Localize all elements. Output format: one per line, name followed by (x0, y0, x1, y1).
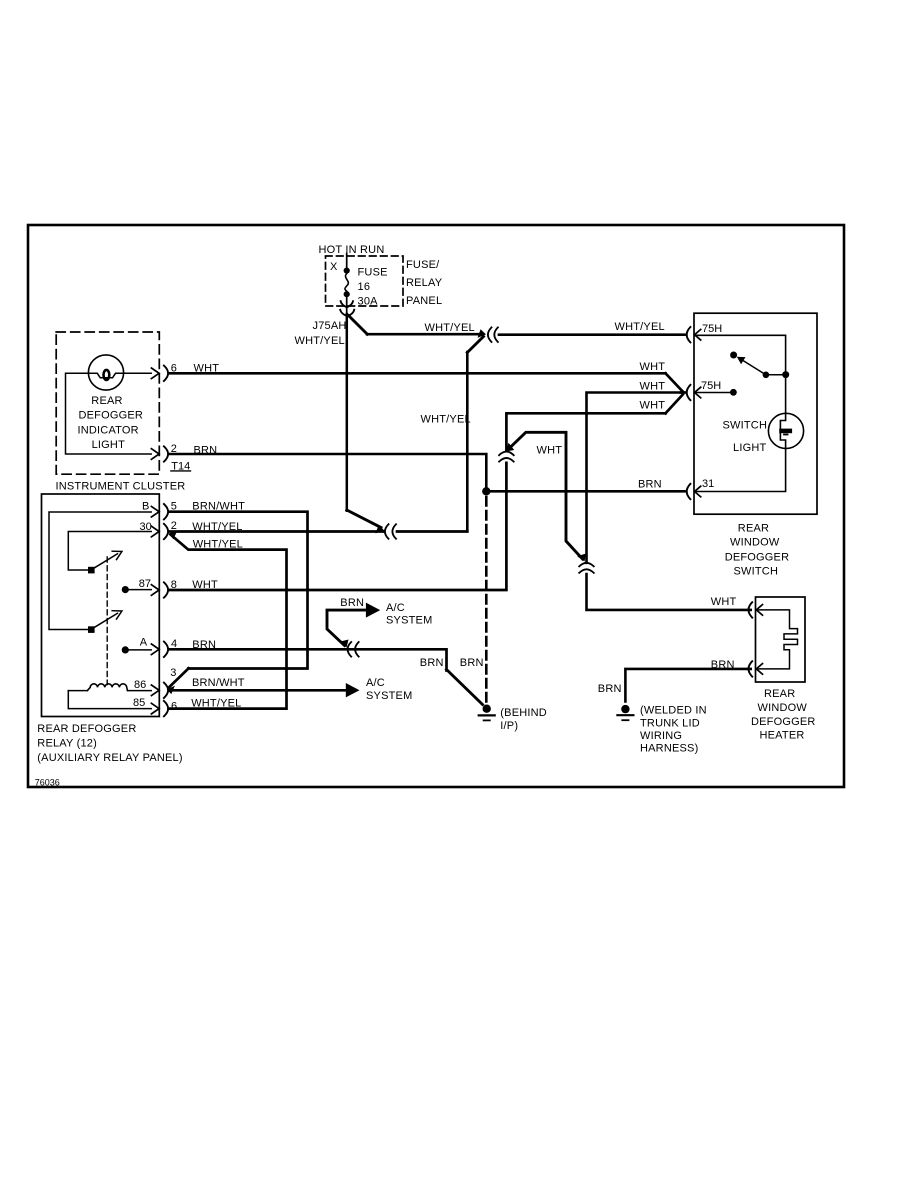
svg-text:BRN: BRN (192, 639, 216, 651)
indicator lamp circle (88, 355, 123, 390)
arrow below fuse box (junction J75AH) (340, 310, 354, 316)
wire from HOT IN RUN into fuse (346, 254, 348, 268)
wire WHT middle (switch to heater drop) (587, 393, 682, 563)
svg-text:RELAY: RELAY (406, 277, 443, 289)
svg-text:WIRING: WIRING (640, 730, 682, 742)
svg-text:87: 87 (139, 578, 151, 590)
lower contact square (88, 626, 95, 633)
pin 5 connector arc (164, 504, 168, 519)
upper contact square (88, 567, 95, 574)
A/C arrow (upper BRN) (366, 603, 380, 618)
cluster wire lamp left leg to pin 2 (66, 373, 152, 454)
switch internal wire lamp to pin 31 (695, 449, 786, 492)
svg-text:A/C: A/C (366, 677, 385, 689)
inline connector on WHT/YEL (two arcs) (488, 327, 498, 342)
wire BRN diagonal to ground (behind I/P) (447, 670, 483, 705)
svg-text:INDICATOR: INDICATOR (78, 424, 139, 436)
wire BRN cluster pin2 to junction (169, 454, 487, 488)
pin 85 connector arc (164, 701, 168, 716)
pin 6 arrow (in box) (151, 368, 159, 379)
svg-text:BRN: BRN (638, 479, 662, 491)
svg-text:INSTRUMENT CLUSTER: INSTRUMENT CLUSTER (56, 481, 186, 493)
wire WHT relay pin8 (169, 463, 507, 590)
switch pin 31 connector arc (687, 484, 691, 499)
switch arm (741, 359, 766, 375)
relay internal wire pin B to lower contact (49, 512, 151, 630)
lamp filament (104, 370, 110, 380)
svg-text:TRUNK LID: TRUNK LID (640, 717, 700, 729)
instrument cluster dashed box (56, 332, 159, 474)
svg-text:REAR: REAR (738, 523, 769, 535)
svg-text:REAR: REAR (764, 688, 795, 700)
wire WHT/YEL connector to vertical x467 (397, 530, 467, 533)
switch lamp cup jog (780, 413, 785, 448)
heater pin BRN connector arc (749, 661, 753, 676)
wire BRN/WHT pin86 to A/C system (169, 689, 345, 692)
frame border (28, 225, 844, 787)
arrow at fuse box bottom (341, 301, 353, 307)
switch pivot dot left (763, 372, 770, 379)
pin 2 connector arc (164, 524, 168, 539)
relay coil left leg to pin 85 (68, 691, 151, 709)
svg-text:I/P): I/P) (500, 720, 518, 732)
wire BRN relay pin4 (169, 649, 447, 670)
pin 6 connector arc (164, 366, 168, 381)
ground symbol (behind I/P) (483, 705, 491, 713)
svg-text:(WELDED IN: (WELDED IN (640, 705, 707, 717)
svg-text:WINDOW: WINDOW (730, 537, 780, 549)
contact dot pin 87 (122, 586, 129, 593)
inline connector on WHT vertical (579, 563, 594, 573)
svg-text:75H: 75H (701, 380, 721, 392)
svg-text:(AUXILIARY RELAY PANEL): (AUXILIARY RELAY PANEL) (37, 752, 182, 764)
svg-text:2: 2 (171, 443, 177, 455)
svg-text:4: 4 (171, 638, 177, 650)
svg-text:5: 5 (171, 501, 177, 513)
svg-text:HARNESS): HARNESS) (640, 743, 698, 755)
inline connector on WHT/YEL pin2 wire (385, 524, 396, 539)
rear window defogger switch box (694, 313, 817, 514)
svg-text:16: 16 (358, 281, 371, 293)
wire BRN/WHT pin5 right then down (169, 512, 308, 669)
wire WHT/YEL second branch from pin2 (169, 535, 287, 709)
svg-text:HOT IN RUN: HOT IN RUN (319, 244, 385, 256)
wire to pin 75H mid (681, 391, 685, 394)
cluster wire lamp to pin 6 (123, 372, 151, 374)
fuse output wire (346, 297, 348, 314)
svg-text:WINDOW: WINDOW (758, 702, 808, 714)
svg-text:6: 6 (171, 362, 177, 374)
svg-text:SYSTEM: SYSTEM (366, 690, 412, 702)
branch arrowhead into BRN connector (340, 640, 349, 648)
wire diagonal J75AH to connector (347, 510, 381, 528)
svg-text:WHT: WHT (194, 362, 220, 374)
switch pin 75H mid connector arc (687, 385, 691, 400)
svg-text:A/C: A/C (386, 602, 405, 614)
wire diagonal fuse to WHT/YEL horizontal (349, 316, 368, 335)
svg-text:30A: 30A (358, 296, 379, 308)
arrowhead into WHT vertical connector (lower) (577, 554, 586, 562)
svg-text:REAR DEFOGGER: REAR DEFOGGER (37, 723, 136, 735)
svg-text:WHT/YEL: WHT/YEL (425, 322, 475, 334)
svg-text:WHT: WHT (640, 380, 666, 392)
rear window defogger heater box (756, 597, 806, 682)
heater pin WHT connector arc (749, 602, 753, 617)
svg-text:75H: 75H (702, 323, 722, 335)
svg-text:WHT: WHT (192, 579, 218, 591)
junction dot node BRN (482, 487, 490, 495)
pin 8 arrow (151, 585, 159, 596)
T14 underline (171, 470, 191, 472)
switch pin 75H top connector arc (687, 327, 691, 342)
fuse F16 terminal dot bottom (344, 291, 350, 297)
ground symbol (welded in trunk lid) (621, 705, 629, 713)
relay coil (68, 690, 151, 692)
svg-text:WHT: WHT (640, 361, 666, 373)
svg-text:DEFOGGER: DEFOGGER (725, 551, 790, 563)
heater element (757, 610, 798, 669)
svg-text:T14: T14 (171, 460, 190, 472)
wire BRN junction to switch pin 31 (490, 490, 684, 493)
svg-text:WHT/YEL: WHT/YEL (421, 414, 471, 426)
pin 2 connector arc (164, 446, 168, 461)
relay actuator dashed line (106, 557, 108, 685)
svg-text:WHT/YEL: WHT/YEL (193, 539, 243, 551)
svg-text:WHT: WHT (711, 596, 737, 608)
svg-text:BRN: BRN (420, 657, 444, 669)
pin 86 connector arc (164, 683, 168, 698)
wire WHT/YEL vertical x467 (466, 352, 469, 531)
branch arrowhead into pin86 connector (167, 686, 175, 695)
wire J75AH WHT/YEL vertical (346, 314, 349, 511)
svg-text:31: 31 (702, 478, 714, 490)
svg-text:PANEL: PANEL (406, 295, 442, 307)
contact dot pin A (122, 646, 129, 653)
svg-text:RELAY (12): RELAY (12) (37, 737, 97, 749)
svg-text:DEFOGGER: DEFOGGER (79, 410, 144, 422)
svg-text:(BEHIND: (BEHIND (500, 707, 547, 719)
lower switch arm (95, 613, 118, 627)
svg-text:85: 85 (133, 697, 145, 709)
svg-text:DEFOGGER: DEFOGGER (751, 716, 816, 728)
fuse F16 element (S-curve) (345, 274, 348, 292)
pin 5 arrow (151, 506, 159, 517)
arrowhead into WHT connector (upper) (506, 443, 514, 452)
wire WHT/YEL connector to switch pin 75H (499, 333, 685, 336)
svg-text:BRN: BRN (598, 683, 622, 695)
switch lamp filament (782, 429, 790, 434)
svg-text:FUSE: FUSE (358, 266, 388, 278)
branch arrowhead into connector (from fuse side) (478, 329, 487, 338)
svg-text:HEATER: HEATER (760, 730, 805, 742)
svg-text:BRN/WHT: BRN/WHT (192, 500, 245, 512)
branch wire BRN to A/C system (327, 610, 365, 645)
pin 2 arrow (in box) (151, 449, 159, 460)
svg-text:2: 2 (171, 520, 177, 532)
switch pivot dot on lamp vertical (782, 371, 789, 378)
svg-text:30: 30 (140, 521, 152, 533)
inline connector on WHT pin8 vertical (499, 452, 514, 462)
svg-text:LIGHT: LIGHT (733, 442, 766, 454)
branch diagonal connector to vertical WHT/YEL (467, 337, 483, 353)
switch lamp circle (768, 413, 803, 448)
wire WHT/YEL relay pin2 (169, 530, 384, 533)
svg-text:WHT: WHT (537, 445, 563, 457)
svg-text:SWITCH: SWITCH (734, 565, 779, 577)
wire WHT/YEL horizontal to connector (367, 333, 483, 336)
switch contact dot top (730, 352, 737, 359)
svg-text:BRN: BRN (460, 657, 484, 669)
A/C arrow (lower BRN/WHT) (346, 683, 360, 697)
wire WHT heater feed (587, 574, 751, 610)
upper arm open arrowhead (112, 551, 122, 559)
switch arm arrowhead (737, 357, 746, 365)
svg-text:FUSE/: FUSE/ (406, 259, 440, 271)
jumper wire WHT between connectors (508, 432, 583, 559)
svg-text:REAR: REAR (91, 395, 122, 407)
upper switch arm (95, 554, 118, 568)
chevron merge diagonals into pin 75H mid (666, 395, 683, 414)
pin 2 arrow (151, 526, 159, 537)
dashed BRN wire to ground (485, 497, 488, 703)
switch pin 31 arrow (695, 486, 701, 497)
lamp cup dip (89, 373, 124, 377)
switch pivot link (766, 374, 786, 376)
svg-text:8: 8 (171, 579, 177, 591)
lower arm open arrowhead (112, 611, 122, 619)
svg-text:SWITCH: SWITCH (723, 419, 768, 431)
svg-text:BRN/WHT: BRN/WHT (192, 677, 245, 689)
svg-text:BRN: BRN (340, 597, 364, 609)
svg-text:WHT/YEL: WHT/YEL (192, 521, 242, 533)
heater pin WHT arrow (756, 605, 762, 616)
pin 4 connector arc (164, 642, 168, 657)
branch arrowhead into relay pin2 connector (169, 531, 178, 539)
wire BRN heater to ground (625, 669, 750, 702)
switch internal wire 75H top to lamp vertical (695, 335, 786, 413)
pin 8 connector arc (164, 582, 168, 597)
switch contact dot (pin 75H mid) (730, 389, 737, 396)
switch pin 75H mid arrow (695, 387, 701, 398)
svg-text:LIGHT: LIGHT (92, 439, 125, 451)
svg-text:WHT/YEL: WHT/YEL (191, 697, 241, 709)
pin 86 arrow (151, 685, 159, 696)
svg-text:86: 86 (134, 679, 146, 691)
fuse F16 30A terminal dot top (344, 268, 350, 274)
svg-text:WHT: WHT (640, 399, 666, 411)
svg-text:B: B (142, 500, 149, 512)
pin 4 arrow (151, 644, 159, 655)
svg-text:A: A (140, 636, 148, 648)
relay internal wire pin 30 to upper contact (68, 532, 151, 571)
svg-text:X: X (330, 261, 338, 273)
svg-text:3: 3 (170, 667, 176, 679)
svg-text:SYSTEM: SYSTEM (386, 614, 432, 626)
wire top WHT cluster pin6 to switch (169, 372, 666, 375)
pin 85 arrow (151, 703, 159, 714)
switch internal wire 75H mid to contact (695, 392, 730, 394)
switch pin 75H top arrow (695, 329, 701, 340)
svg-text:76036: 76036 (35, 778, 60, 788)
wire diagonal to pin 86 connector (169, 668, 189, 687)
wire dot to pin 87 (125, 589, 151, 591)
branch arrowhead J75AH into connector (375, 525, 384, 534)
inline connector on BRN pin4 wire (348, 642, 359, 657)
relay box (rear defogger relay) (42, 494, 160, 717)
svg-text:BRN: BRN (711, 659, 735, 671)
fuse/relay panel dashed box (326, 256, 404, 306)
svg-text:6: 6 (171, 701, 177, 713)
wire WHT pin8 vertical to chevron (506, 413, 665, 451)
heater pin BRN arrow (756, 664, 762, 675)
wire WHT diagonal into switch merge (666, 373, 683, 391)
svg-text:BRN: BRN (194, 444, 218, 456)
svg-text:J75AH: J75AH (313, 320, 347, 332)
wire dot to pin A (125, 649, 151, 651)
svg-text:WHT/YEL: WHT/YEL (615, 321, 665, 333)
svg-text:WHT/YEL: WHT/YEL (295, 335, 345, 347)
